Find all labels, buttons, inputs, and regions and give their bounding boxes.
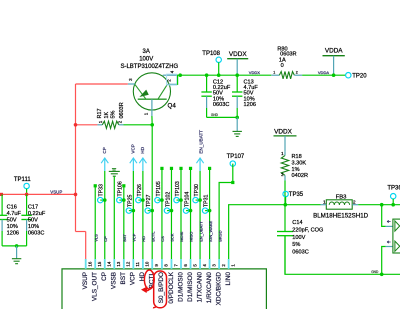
R80 current: [279, 57, 286, 63]
net label HD: [141, 236, 146, 242]
IC pin 6 name D1/MOSI0: [177, 272, 184, 302]
C16 label: [7, 204, 17, 210]
IC pin 15 stub: [94, 259, 96, 269]
VCP arrow label: [131, 144, 136, 153]
wire VDDX rail: [177, 74, 271, 76]
C17 tolerance: [28, 224, 39, 230]
IC pin 8 stub: [161, 259, 163, 269]
C12 label: [213, 80, 223, 86]
FB3 pin 1 number: [323, 199, 326, 205]
IC pin 14 name CP: [101, 272, 108, 281]
svg-text:10: 10: [145, 261, 150, 266]
C12 package: [213, 102, 229, 108]
svg-text:VLS_OUT: VLS_OUT: [92, 272, 99, 301]
resistor R18: [281, 151, 288, 204]
IC pin 5 name D1/MISO0: [187, 272, 194, 302]
svg-text:TP106: TP106: [118, 181, 124, 196]
svg-text:CS: CS: [160, 236, 165, 242]
power VDDX mid: [274, 136, 297, 152]
IC pin 4 name 1/TXCAN0: [196, 272, 203, 303]
net label CP: [103, 236, 108, 242]
R80 label: [277, 46, 287, 52]
svg-text:1%: 1%: [292, 167, 300, 173]
IC pin 6 number: [183, 264, 188, 267]
svg-text:HD: HD: [140, 146, 145, 153]
IC pin 13 name VSSB: [111, 272, 118, 289]
wire VDDA rail: [302, 74, 345, 76]
svg-text:1206: 1206: [244, 102, 256, 108]
svg-text:VDDX: VDDX: [274, 128, 292, 135]
svg-text:BST: BST: [122, 233, 127, 241]
svg-text:EN_UBATT: EN_UBATT: [198, 130, 203, 154]
testpoint TP103: [174, 197, 183, 202]
IC pin 2 name XDC/BKGD: [215, 272, 222, 306]
wire Q4 emitter to junction: [151, 116, 153, 125]
net label VCP: [132, 233, 137, 242]
svg-text:TP26: TP26: [137, 184, 143, 197]
VDDA label: [325, 48, 343, 55]
IC pin 1 stub: [228, 259, 230, 269]
svg-text:1: 1: [273, 71, 275, 75]
C13 label: [244, 80, 254, 86]
svg-text:0402R: 0402R: [292, 173, 308, 179]
TP20 label: [352, 74, 367, 80]
power VDDX top: [227, 59, 248, 75]
svg-text:D1/MOSI0: D1/MOSI0: [177, 272, 184, 302]
capacitor C16: [0, 194, 7, 246]
svg-text:220pF, COG: 220pF, COG: [292, 228, 323, 234]
svg-text:10%: 10%: [28, 224, 39, 230]
IC pin 3 stub: [209, 259, 211, 269]
IC pin 7 name 0/PDOCLK: [168, 271, 175, 303]
Q4 pin 4 number: [170, 70, 175, 73]
svg-text:VDDA: VDDA: [325, 48, 343, 55]
GND label small: [211, 113, 219, 117]
IC pin 8 name S0_B/PDO: [158, 272, 165, 303]
C13 package: [244, 102, 256, 108]
wire BST: [122, 184, 125, 259]
junction VSUP/R17: [74, 123, 78, 127]
offpage CP arrow: [101, 158, 108, 259]
capacitor C17: [21, 194, 31, 246]
testpoint TP25: [126, 208, 135, 213]
TP30 label: [194, 184, 200, 197]
svg-text:BLM18HE152SH1D: BLM18HE152SH1D: [313, 212, 369, 219]
testpoint TP105: [155, 197, 164, 202]
wire VSUP rail: [1, 193, 76, 195]
IC pin 8 number: [164, 264, 169, 267]
svg-text:1/TXCAN0: 1/TXCAN0: [196, 272, 203, 303]
TP36 label: [387, 185, 400, 191]
testpoint TP104: [183, 208, 192, 213]
C12 value: [213, 85, 231, 91]
svg-text:GND: GND: [371, 270, 379, 274]
junction BCTL/R17: [150, 123, 154, 127]
IC pin 15 number: [97, 261, 102, 266]
IC pin 10 stub: [142, 259, 144, 269]
buffer triangle 2: [395, 241, 400, 251]
svg-text:TP102: TP102: [165, 192, 171, 207]
junction Q4 collector: [178, 73, 182, 77]
wire Q4 base (VSUP): [76, 83, 128, 85]
junction LIN right: [380, 203, 384, 207]
svg-text:GND: GND: [211, 113, 219, 117]
IC pin 12 name BST: [120, 272, 127, 285]
wire R17 to BCTL: [124, 124, 153, 126]
C17 package: [28, 230, 44, 236]
C13 value: [244, 85, 259, 91]
TP104 label: [184, 192, 190, 207]
IC pin 3 name 1/RXCAN0: [206, 272, 213, 304]
wire CS: [160, 167, 163, 259]
svg-text:R17: R17: [97, 108, 103, 118]
svg-text:3A: 3A: [143, 49, 150, 55]
C17 label: [28, 204, 38, 210]
svg-text:TP36: TP36: [387, 185, 400, 191]
testpoint TP111: [24, 183, 29, 194]
svg-text:VCP: VCP: [131, 144, 136, 153]
IC pin 5 stub: [190, 259, 192, 269]
TP105 label: [156, 181, 162, 196]
TP106 label: [118, 181, 124, 196]
Q4 pin highlight box: [167, 74, 177, 85]
svg-text:2: 2: [353, 199, 356, 205]
svg-text:XDC/BKGD: XDC/BKGD: [215, 272, 222, 306]
testpoint TP33: [98, 197, 107, 202]
svg-text:R18: R18: [292, 154, 302, 160]
svg-text:CP: CP: [102, 147, 107, 153]
TP33 label: [99, 184, 105, 197]
TP27 label: [146, 194, 152, 207]
testpoint TP31: [202, 208, 211, 213]
wire to comparator input 1: [382, 205, 386, 227]
VDDX top label: [229, 51, 247, 58]
net label VLS: [93, 234, 98, 242]
C17 value: [28, 211, 46, 217]
R18 value: [292, 161, 307, 167]
red arrow: [141, 286, 151, 293]
svg-text:BKGD: BKGD: [217, 230, 222, 241]
svg-text:TP33: TP33: [99, 184, 105, 197]
svg-text:1/RXCAN0: 1/RXCAN0: [206, 272, 213, 304]
IC pin 9 stub: [151, 259, 153, 269]
junction gnd C16/C17: [15, 244, 19, 248]
C12 voltage: [213, 91, 223, 97]
svg-text:50V: 50V: [28, 217, 38, 223]
C14 package: [292, 249, 308, 255]
comparator input 1 stub: [386, 225, 393, 227]
Q4 pin 2 stub: [167, 83, 176, 85]
resistor R17: [97, 121, 123, 128]
wire GND rail: [285, 236, 400, 275]
GND rail label: [371, 270, 379, 274]
R18 pin 2 number: [281, 172, 284, 177]
CP arrow label: [102, 147, 107, 153]
testpoint TP108: [216, 57, 221, 75]
svg-text:100V: 100V: [139, 57, 153, 63]
TP102 label: [165, 192, 171, 207]
svg-text:10%: 10%: [7, 224, 18, 230]
svg-text:11: 11: [135, 261, 140, 266]
R18 label: [292, 154, 302, 160]
net label BCTL: [150, 231, 155, 242]
junction VSUP rail: [74, 193, 78, 197]
svg-text:VLS: VLS: [93, 234, 98, 242]
junction C12: [205, 73, 209, 77]
wire Q4 pin2 elbow: [176, 75, 179, 84]
wire MOSI: [179, 167, 182, 259]
svg-text:0603C: 0603C: [213, 102, 229, 108]
Q4 label 3A: [143, 49, 150, 55]
TP111 label: [14, 177, 31, 183]
IC pin 12 number: [126, 261, 131, 266]
R18 pin 1 number: [281, 151, 284, 156]
svg-text:1K: 1K: [104, 111, 110, 118]
wire VSUP jog: [76, 232, 86, 260]
ferrite bead FB3: [321, 200, 359, 209]
svg-text:1206: 1206: [7, 230, 19, 236]
Q4 pin 3 stub: [128, 83, 135, 85]
svg-text:0603C: 0603C: [28, 230, 44, 236]
junction C13 gnd: [235, 116, 239, 120]
svg-text:5%: 5%: [292, 242, 300, 248]
svg-text:TP35: TP35: [289, 192, 304, 198]
svg-text:VSSB: VSSB: [111, 272, 118, 289]
svg-text:LIN0: LIN0: [225, 272, 232, 286]
R17 label: [97, 108, 103, 118]
Q4 pin 1 number: [144, 112, 149, 115]
junction TP111: [25, 193, 29, 197]
IC pin 1 number: [230, 264, 235, 267]
svg-text:CP: CP: [103, 236, 108, 242]
TP26 label: [137, 184, 143, 197]
svg-text:EN_UBATT: EN_UBATT: [198, 221, 203, 242]
Q4 pin 2 number: [167, 79, 172, 82]
net label BKGD: [217, 230, 222, 241]
wire LIN0: [229, 205, 321, 259]
C14 voltage: [292, 235, 305, 241]
svg-text:16: 16: [88, 261, 93, 266]
R80 pin 1 number: [273, 71, 275, 75]
VSUP rail end: [0, 193, 3, 196]
svg-text:TP104: TP104: [184, 192, 190, 207]
svg-text:VCP: VCP: [132, 233, 137, 242]
C17 voltage: [28, 217, 38, 223]
Q4 refdes: [168, 103, 177, 110]
svg-text:0: 0: [281, 63, 284, 69]
C13 voltage: [244, 91, 254, 97]
R17 pin 2 number: [117, 120, 122, 123]
svg-text:SCK: SCK: [170, 233, 175, 242]
IC pin 15 name VLS_OUT: [92, 272, 99, 301]
C14 label: [292, 220, 302, 226]
svg-text:TP25: TP25: [127, 194, 133, 207]
testpoint TP107: [230, 161, 235, 183]
offpage EN_UBATT arrow: [196, 158, 203, 259]
wire SCK: [170, 167, 173, 259]
capacitor C13: [232, 75, 242, 117]
IC pin 4 number: [202, 264, 207, 267]
red circle around BCTL: [144, 270, 154, 289]
svg-text:BCTL: BCTL: [150, 231, 155, 242]
IC pin 5 number: [192, 264, 197, 267]
svg-text:0/PDOCLK: 0/PDOCLK: [168, 271, 175, 303]
svg-text:HD: HD: [141, 236, 146, 242]
junction TP108: [217, 73, 221, 77]
wire BCTL: [151, 125, 153, 259]
svg-text:C14: C14: [292, 220, 302, 226]
VDDX mid label: [274, 128, 292, 135]
svg-text:50V: 50V: [7, 217, 17, 223]
IC pin 2 number: [221, 264, 226, 267]
R80 pin 2 number: [296, 71, 298, 75]
junction TP36: [391, 203, 395, 207]
IC pin 4 stub: [199, 259, 201, 269]
IC pin 16 name VSUP: [82, 272, 89, 289]
svg-text:TP27: TP27: [146, 194, 152, 207]
svg-text:S-LBTP3100Z4TZHG: S-LBTP3100Z4TZHG: [120, 64, 178, 70]
pin mark 1: [387, 220, 391, 222]
IC pin 14 number: [107, 261, 112, 266]
R17 pin 1 number: [98, 120, 103, 123]
FB3 label: [336, 194, 348, 200]
testpoint TP30: [193, 197, 202, 202]
svg-text:MOSI: MOSI: [179, 232, 184, 242]
svg-text:5%: 5%: [111, 110, 117, 118]
svg-text:15: 15: [97, 261, 102, 266]
net label EN_UBATT: [198, 221, 203, 242]
testpoint TP102: [164, 208, 173, 213]
C16 voltage: [7, 217, 17, 223]
IC pin 9 number: [154, 264, 159, 267]
svg-text:Q4: Q4: [168, 103, 177, 110]
C16 tolerance: [7, 224, 18, 230]
svg-text:TP107: TP107: [227, 154, 245, 160]
offpage VCP arrow: [130, 158, 137, 259]
IC pin 13 stub: [113, 259, 115, 269]
testpoint TP35: [283, 191, 288, 204]
svg-text:14: 14: [107, 261, 112, 266]
R17 package 0603R: [119, 102, 125, 118]
Q4 label 100V: [139, 57, 153, 63]
R80 package: [280, 52, 296, 58]
IC pin 9 name BCTL: [149, 272, 156, 289]
net label VDDX: [249, 70, 260, 75]
svg-text:TP111: TP111: [14, 177, 31, 183]
svg-text:VSUP: VSUP: [50, 190, 62, 195]
IC pin 3 number: [211, 264, 216, 267]
red circle around S0_B/PDO: [153, 271, 167, 308]
IC pin 11 stub: [132, 259, 134, 269]
offpage HD arrow: [139, 158, 146, 259]
junction VDDX stem: [235, 73, 239, 77]
svg-text:3.30K: 3.30K: [292, 161, 307, 167]
net label VDDA: [318, 70, 329, 75]
C13 tolerance: [244, 96, 255, 102]
IC pin 16 number: [88, 261, 93, 266]
C16 value: [7, 211, 22, 217]
TP103 label: [175, 181, 181, 196]
wire VLS: [94, 184, 97, 259]
svg-text:TP103: TP103: [175, 181, 181, 196]
svg-text:TP20: TP20: [352, 74, 367, 80]
FB3 part number: [313, 212, 369, 219]
IC pin 7 stub: [170, 259, 172, 269]
svg-text:IGN_WAKE: IGN_WAKE: [208, 221, 213, 242]
net label BST: [122, 233, 127, 241]
IC pin 2 stub: [218, 259, 220, 269]
Q4 label part number: [120, 64, 178, 70]
svg-text:TP105: TP105: [156, 181, 162, 196]
junction VDDA: [332, 73, 336, 77]
IC pin 16 stub: [85, 259, 87, 269]
IC U2 partial box: [393, 219, 400, 253]
R17 value 1K: [104, 111, 110, 118]
wire FB3 to right: [358, 204, 400, 206]
svg-text:4.7uF: 4.7uF: [7, 211, 22, 217]
capacitor C12: [201, 75, 211, 117]
IC pin 1 name LIN0: [225, 272, 232, 286]
net label IGN_WAKE: [208, 221, 213, 242]
TP35 label: [289, 192, 304, 198]
ground C16/C17: [12, 246, 21, 264]
svg-text:VDDX: VDDX: [229, 51, 247, 58]
TP107 label: [227, 154, 245, 160]
C14 value: [292, 228, 323, 234]
svg-text:S0_B/PDO: S0_B/PDO: [158, 272, 165, 303]
HD arrow label: [140, 146, 145, 153]
testpoint TP106: [117, 197, 126, 202]
R80 value 0: [281, 63, 284, 69]
comparator input 2 stub: [386, 246, 393, 248]
IC pin 11 name VCP: [130, 272, 137, 285]
EN_UBATT arrow label: [198, 130, 203, 154]
svg-text:FB3: FB3: [336, 194, 348, 200]
IC pin 10 name HD: [139, 272, 146, 282]
svg-text:VCP: VCP: [130, 272, 137, 285]
IC pin 13 number: [116, 261, 121, 266]
IC pin 10 number: [145, 261, 150, 266]
transistor Q4: [133, 73, 170, 110]
svg-text:TP108: TP108: [202, 51, 220, 57]
net label CS: [160, 236, 165, 242]
testpoint TP36: [391, 194, 396, 205]
wire to comparator input 2: [382, 247, 386, 275]
svg-text:13: 13: [116, 261, 121, 266]
svg-text:CP: CP: [101, 272, 108, 281]
IC pin 7 number: [173, 264, 178, 267]
TP25 label: [127, 194, 133, 207]
FB3 pin 2 number: [353, 199, 356, 205]
ground VSSB: [109, 169, 120, 177]
IC pin 11 number: [135, 261, 140, 266]
wire C16-C17 ground: [2, 245, 27, 247]
svg-text:TP31: TP31: [203, 194, 209, 207]
net label MOSI: [179, 232, 184, 242]
svg-text:100V: 100V: [292, 235, 305, 241]
svg-text:C17: C17: [28, 204, 38, 210]
wire VSSB: [113, 177, 115, 259]
svg-text:VSUP: VSUP: [82, 272, 89, 289]
R18 package: [292, 173, 308, 179]
buffer triangle 1: [395, 221, 400, 231]
C16 package: [7, 230, 19, 236]
C14 tolerance: [292, 242, 300, 248]
svg-text:12: 12: [126, 261, 131, 266]
net label SCK: [170, 233, 175, 242]
power VDDA: [323, 56, 345, 75]
svg-text:MISO: MISO: [189, 232, 194, 242]
